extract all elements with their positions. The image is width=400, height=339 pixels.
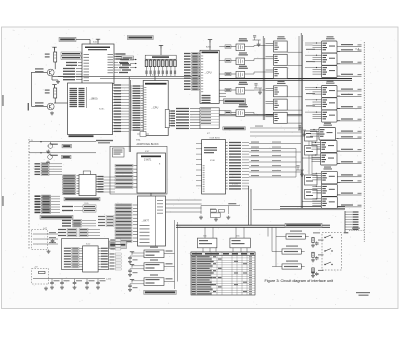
- IC U10 display driver: [83, 246, 99, 272]
- label FRONT PANEL SWITCH: [285, 223, 322, 227]
- bus horizontal: [58, 75, 203, 77]
- wires lcells to mcells G1: [245, 46, 266, 75]
- label cell C4: [326, 81, 335, 84]
- dashed box bottom left: [32, 269, 49, 285]
- wire stubs U4 right: [219, 94, 226, 101]
- capacitor: [315, 272, 319, 276]
- wires bus to 556 timers: [205, 227, 244, 238]
- IC U2 8K ROM memory section: [68, 83, 113, 135]
- wire: [53, 76, 68, 78]
- +5V rail: [208, 40, 212, 43]
- ground: [46, 161, 50, 165]
- output wires to J2: [337, 44, 362, 207]
- svg-text:XTAL: XTAL: [136, 139, 141, 142]
- resistor array RA1 common rail: [145, 55, 176, 59]
- wire: [30, 72, 32, 106]
- label right of memory bar: [96, 140, 113, 141]
- relay driver C6: [313, 110, 341, 122]
- wires mcells to rcells G2: [287, 88, 315, 124]
- stub IC03 top of U3: [154, 77, 156, 81]
- driver cell B4: [266, 86, 288, 97]
- pin labels U1 left lower: [63, 68, 82, 81]
- pin name rows U4 bottom: [202, 95, 211, 104]
- wire: [130, 85, 132, 131]
- capacitor: [128, 284, 132, 288]
- label Q1: [35, 68, 44, 69]
- wire: [248, 186, 250, 225]
- label row B: [62, 155, 72, 159]
- transistor Q2: [47, 103, 54, 110]
- capacitor C2 decoupling: [61, 279, 63, 282]
- wire stubs U8 left: [196, 144, 202, 186]
- sub-cell G3b: [305, 146, 318, 156]
- bus horizontal right 2b: [220, 115, 303, 117]
- switch box dashed: [322, 233, 342, 271]
- wires osc outputs vertical: [174, 220, 176, 289]
- bus horizontal right 2: [220, 113, 303, 115]
- relay driver C1: [313, 41, 341, 53]
- switch S2: [324, 235, 332, 238]
- wires from bus to front panel: [268, 227, 276, 266]
- transistor Q1: [47, 69, 54, 76]
- ground: [311, 274, 315, 278]
- value label R1: [45, 54, 50, 55]
- svg-text:IC08: IC08: [210, 160, 215, 162]
- label CPU SECTION: [127, 36, 153, 40]
- bus vertical right A2: [264, 38, 266, 120]
- svg-text:2. +5V: 2. +5V: [232, 184, 239, 186]
- crystal X1: [137, 132, 149, 137]
- IC U1 8031 microprocessor: [82, 44, 114, 84]
- driver cell B2: [266, 54, 288, 65]
- pin labels U9 left: [63, 175, 80, 195]
- label OPTICAL INPUT: [40, 215, 73, 219]
- wires mcells to rcells G1: [287, 43, 315, 78]
- label SWITCH CONTROL: [109, 241, 127, 249]
- value labels under RA1: [145, 71, 176, 75]
- pin labels U6 left: [115, 164, 137, 188]
- svg-text:→(8K0): →(8K0): [89, 97, 98, 101]
- relay driver C10: [312, 171, 340, 184]
- svg-text:(+5V): (+5V): [106, 279, 111, 281]
- label OUTPUT BUFFERS: [224, 99, 246, 104]
- small box above U9: [83, 171, 90, 175]
- label LED INDICATOR: [223, 127, 246, 130]
- rotated label TRIG left margin: [28, 103, 29, 111]
- ground: [56, 80, 60, 84]
- resistor: [312, 252, 314, 257]
- driver cell B6: [266, 112, 288, 123]
- capacitor C1 decoupling: [51, 279, 53, 282]
- label Q2: [35, 102, 44, 103]
- relay driver C3: [313, 66, 341, 78]
- bus horizontal long 2: [176, 226, 330, 228]
- label cell A4: [239, 82, 248, 85]
- wires group4: [302, 178, 321, 202]
- svg-text:IC06←: IC06←: [99, 109, 106, 111]
- resistor R1: [54, 52, 57, 62]
- wire: [54, 98, 56, 103]
- relay driver C9: [312, 153, 341, 165]
- label EXTERNAL TRIGGER INPUT: [64, 197, 100, 201]
- bus horizontal long: [176, 224, 330, 226]
- bus horizontal right 3: [280, 206, 345, 208]
- front panel row 1: [276, 231, 309, 240]
- capacitor C5: [96, 281, 100, 285]
- +5V rail: [52, 85, 56, 88]
- wire: [76, 39, 90, 41]
- wire: [150, 193, 152, 196]
- input row B wire: [29, 152, 96, 156]
- relay driver C11: [312, 184, 340, 196]
- power: [130, 252, 134, 255]
- scan speckle: [4, 29, 394, 306]
- bus horizontal right 1: [220, 78, 353, 80]
- capacitor C4: [85, 281, 89, 285]
- input row A wire: [29, 141, 96, 145]
- connector J2 dashed line: [363, 42, 365, 242]
- label cell A3: [239, 66, 248, 69]
- label cell A1: [239, 38, 248, 41]
- wire: [54, 85, 56, 88]
- opto input cell A3: [225, 66, 248, 78]
- label cell A2: [239, 53, 248, 56]
- svg-text:→CPU: →CPU: [151, 107, 159, 110]
- bus horizontal right 3b: [280, 207, 345, 209]
- capacitor C5 decoupling: [97, 279, 99, 282]
- wire: [54, 62, 56, 69]
- IC U6 Z-8671: [137, 153, 166, 193]
- pin numbers inside U3: [144, 87, 146, 130]
- pin labels RP1 right: [169, 110, 175, 126]
- capacitor cluster G4: [296, 166, 304, 173]
- wires U7 right to U8: [166, 200, 202, 212]
- bus vertical right A: [262, 36, 264, 120]
- power: [130, 265, 134, 268]
- front panel row 2: [272, 246, 305, 255]
- ground: [50, 111, 54, 115]
- wire: [31, 105, 47, 107]
- svg-text:Figure 3: Circuit diagram of i: Figure 3: Circuit diagram of interface u…: [265, 279, 335, 283]
- rows right of bank C: [98, 215, 114, 226]
- ground: [311, 271, 315, 275]
- label AUDIO INPUT BUFFER: [144, 290, 177, 294]
- ground: [46, 150, 50, 154]
- bus horizontal right 1b: [220, 79, 353, 81]
- connector pin rows bank B: [35, 195, 61, 214]
- wire: [209, 40, 211, 50]
- sub-cell G4b: [305, 190, 318, 200]
- wire: [52, 79, 58, 81]
- wire: [54, 102, 68, 104]
- driver cell B1: [266, 41, 288, 52]
- pin labels U1 right upper: [114, 53, 126, 59]
- ground: [257, 43, 261, 47]
- opto input cell A1: [225, 38, 248, 50]
- switch S4: [324, 262, 332, 265]
- wire pin column divider: [85, 87, 87, 108]
- capacitor: [315, 256, 319, 260]
- ground: [311, 258, 315, 262]
- ground: [73, 286, 77, 290]
- ground: [128, 260, 132, 264]
- bus vertical: [128, 77, 130, 152]
- capacitor input cell: [130, 252, 144, 261]
- label cell C1: [326, 36, 335, 39]
- label cell B1: [277, 36, 286, 39]
- pin labels U5 left: [176, 108, 200, 129]
- wire: [54, 47, 56, 52]
- IC U9 buffer 74LS244: [79, 175, 96, 196]
- wire stubs U8 right: [226, 142, 228, 190]
- wire: [298, 36, 300, 130]
- pin numbers inside U8: [203, 165, 205, 192]
- pin name rows inside U2: [70, 88, 78, 107]
- pin labels U2 right comb: [113, 84, 122, 132]
- label cell C10: [324, 167, 333, 170]
- wire: [250, 189, 252, 225]
- pullup cluster: [201, 203, 240, 217]
- value label R2: [45, 90, 50, 91]
- boxed label right of U1: [122, 56, 134, 60]
- wire +5V rail bottom: [33, 278, 105, 280]
- capacitor C3 decoupling: [74, 279, 76, 282]
- sub-cell G4a: [305, 175, 318, 185]
- rows above IC6 enclosure: [58, 228, 100, 236]
- capacitor cluster G2: [254, 84, 262, 91]
- resistor: [312, 238, 314, 243]
- wires lcells to mcells G2: [245, 90, 266, 114]
- driver cell B3: [266, 68, 288, 79]
- ground: [85, 286, 89, 290]
- relay driver C7: [310, 128, 339, 141]
- rows right of IC6 enclosure upper: [110, 239, 121, 250]
- svg-text:8255: 8255: [206, 47, 212, 49]
- +5V rail: [159, 45, 163, 48]
- ground: [44, 287, 48, 291]
- credit text: [356, 292, 370, 293]
- pin labels U1 left boxed: [61, 52, 82, 59]
- capacitor cluster G3: [298, 126, 306, 133]
- one-shot U15 IC17a: [144, 247, 175, 258]
- pin labels U8 right: [229, 142, 249, 190]
- pin labels U1 left mid: [66, 62, 82, 66]
- relay driver C4: [313, 86, 341, 98]
- driver cell B5: [266, 99, 288, 110]
- ground: [226, 216, 230, 220]
- bus horizontal right 3c: [253, 209, 345, 211]
- bus vertical right B2: [302, 35, 304, 208]
- IC U4 I/O controller 8255: [200, 50, 219, 103]
- opto input cell A5: [225, 104, 248, 116]
- enclosure additional block: [110, 146, 167, 194]
- label TRIG(+) IN: [59, 37, 76, 41]
- capacitor C2: [60, 281, 64, 285]
- connector J3 dashed box: [32, 230, 48, 250]
- divider in U7: [155, 196, 157, 246]
- capacitor C1: [50, 281, 54, 285]
- pin numbers inside U4: [201, 56, 203, 93]
- switch box S1 mode select: [113, 148, 125, 157]
- ground: [302, 133, 306, 137]
- wire stubs U2 comb to bus: [121, 85, 130, 131]
- one-shot U17 IC18: [144, 274, 175, 285]
- connector pin rows bank A: [35, 163, 63, 176]
- opto input cell A2: [225, 52, 248, 64]
- one-shot U16 IC17b: [144, 259, 175, 270]
- +5V rail: [52, 47, 56, 50]
- IC U13 556 timer A: [197, 238, 217, 248]
- transistor Q4: [47, 142, 53, 149]
- label row A: [62, 144, 72, 148]
- edge label 2: [2, 196, 3, 206]
- pin labels U9 right: [96, 176, 104, 193]
- pin labels U10 left: [64, 247, 83, 268]
- rows right of IC6 enclosure lower: [110, 253, 122, 270]
- rows inside U7: [140, 200, 164, 243]
- pin labels U10 right: [98, 248, 108, 268]
- label cell A5: [239, 104, 248, 107]
- capacitor cluster G1: [253, 36, 261, 43]
- svg-text:→CPU: →CPU: [204, 72, 212, 75]
- rows bank C: [62, 219, 96, 227]
- opto input cell A4: [225, 82, 248, 94]
- wire stubs 556 to table: [203, 248, 247, 252]
- wires in J3 cluster: [33, 232, 58, 244]
- wire: [31, 71, 47, 73]
- capacitor: [128, 269, 132, 273]
- sub-cell G3a: [305, 131, 318, 141]
- wire: [51, 76, 53, 80]
- pin labels U7 left: [115, 204, 138, 243]
- ground: [60, 286, 64, 290]
- ground: [311, 244, 315, 248]
- label MEMORY SECTION: [69, 135, 94, 137]
- resistor: [39, 271, 46, 273]
- label cell B4: [277, 81, 286, 84]
- wires U4 to input cells: [219, 47, 230, 111]
- IC U5 decoder with rows: [200, 108, 219, 129]
- capacitor input cell: [130, 265, 144, 274]
- ground: [258, 91, 262, 95]
- resistor pack RP2 comb: [344, 211, 364, 233]
- wires U9 to U6: [104, 177, 116, 192]
- resistor R2: [54, 88, 57, 98]
- bus horizontal 2: [100, 77, 203, 79]
- edge label 1: [2, 95, 3, 106]
- ground: [50, 286, 54, 290]
- resistor pack RP1: [165, 110, 169, 128]
- IC U14 556 timer B: [230, 238, 250, 248]
- label INPUT BUFFERS: [224, 99, 246, 104]
- switch S3: [324, 249, 332, 252]
- capacitor C4 decoupling: [86, 279, 88, 282]
- IC U7 buffer: [138, 196, 166, 246]
- capacitor: [128, 256, 132, 260]
- bus vertical b: [130, 80, 132, 152]
- power: [130, 280, 134, 283]
- ground: [214, 218, 218, 222]
- ground: [96, 286, 100, 290]
- wire +V to array: [160, 45, 162, 55]
- svg-text:Z-8671: Z-8671: [144, 160, 152, 162]
- +5V rail: [96, 39, 100, 42]
- front panel row 3: [272, 261, 305, 270]
- ground: [128, 273, 132, 277]
- wires fan to G3: [250, 126, 312, 178]
- wire vertical 2: [177, 222, 179, 282]
- capacitor: [315, 242, 319, 246]
- wire: [89, 40, 91, 45]
- resistor array RA1 resistors: [145, 59, 176, 76]
- rows below U9: [62, 205, 96, 212]
- svg-text:J-0?: J-0?: [43, 228, 47, 230]
- relay driver C2: [313, 53, 341, 65]
- label cell C7: [324, 123, 333, 126]
- relay driver C5: [313, 98, 341, 110]
- svg-text:→8K?7: →8K?7: [141, 220, 150, 223]
- capacitor C10: [51, 239, 55, 243]
- IC U8 8255 PIO: [202, 140, 226, 194]
- capacitor input cell: [130, 280, 144, 289]
- pin names inside U1: [84, 54, 114, 81]
- pin name rows inside U2 col2: [79, 88, 85, 107]
- resistor: [312, 268, 314, 273]
- connector J1 dashed boundary: [28, 139, 30, 250]
- enclosure IC6 section: [62, 239, 109, 270]
- ground: [199, 216, 203, 220]
- svg-text:ADDITIONAL BLOCK: ADDITIONAL BLOCK: [137, 143, 160, 146]
- ground: [300, 173, 304, 177]
- bus vertical right B: [300, 33, 302, 208]
- table connector signals: [191, 252, 255, 295]
- wires U8 outputs to drivers: [249, 142, 301, 178]
- wires group3: [302, 134, 321, 158]
- relay driver C12: [312, 197, 340, 209]
- capacitor C3: [73, 281, 77, 285]
- ground: [128, 288, 132, 292]
- pin labels U1 right lower: [114, 62, 131, 73]
- relay driver C8: [312, 141, 341, 153]
- label above comb: [352, 228, 360, 229]
- ground: [47, 250, 51, 254]
- pin labels left of RA1: [120, 59, 137, 69]
- pin labels U4 left: [184, 52, 200, 90]
- pin labels U3 left: [133, 85, 144, 130]
- IC U3 CMOS Z-80A CPU: [143, 81, 168, 136]
- transistor Q5: [48, 153, 53, 160]
